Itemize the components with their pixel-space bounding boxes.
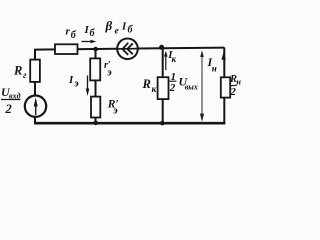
svg-text:н: н	[212, 64, 217, 74]
svg-text:β: β	[105, 18, 113, 33]
label I_k	[167, 49, 176, 64]
svg-text:2: 2	[229, 86, 236, 98]
svg-text:2: 2	[5, 102, 12, 116]
label r'_e	[104, 60, 112, 79]
svg-text:вых: вых	[185, 83, 198, 92]
svg-text:2: 2	[169, 82, 176, 94]
resistor R_n/2 load box	[221, 77, 230, 97]
svg-text:I: I	[121, 21, 127, 33]
svg-text:к: к	[172, 54, 177, 64]
current source chevron 1	[122, 43, 128, 55]
current arrow I_n on load wire	[221, 52, 225, 60]
label I_b with arrow	[84, 24, 96, 39]
svg-text:э: э	[106, 68, 112, 79]
svg-text:r: r	[66, 26, 71, 38]
resistor r_b (base) box	[55, 44, 78, 54]
current arrow I_e	[86, 76, 90, 97]
wire emitter branch vertical	[95, 49, 97, 123]
svg-text:г: г	[23, 71, 27, 81]
node dot collector bottom junction	[160, 121, 165, 126]
wire top rail	[35, 48, 224, 50]
label U_vx/2	[1, 85, 21, 116]
label r_b	[66, 26, 77, 42]
current arrow I_k	[164, 51, 168, 70]
svg-text:э: э	[73, 79, 79, 90]
resistor r'_e box	[90, 58, 100, 80]
current source arrow shaft	[117, 48, 138, 50]
svg-text:э: э	[112, 106, 118, 117]
label I_n	[207, 55, 217, 74]
label I_e	[68, 74, 79, 90]
resistor R_g (generator) box	[30, 60, 40, 82]
wire left branch vertical	[34, 49, 36, 124]
wire collector branch vertical	[162, 47, 164, 123]
svg-text:R: R	[142, 77, 151, 91]
label R'_e	[107, 99, 119, 117]
wire bottom rail	[34, 122, 225, 125]
resistor R'_e box	[91, 97, 100, 118]
voltage arrow U_vyx double headed	[200, 50, 204, 122]
label R_n/2	[229, 74, 241, 98]
source U_vx/2 circle	[25, 96, 46, 117]
svg-text:R: R	[13, 64, 22, 78]
current source chevron 2	[127, 43, 133, 54]
source U_vx/2 arrow inside	[34, 98, 38, 116]
current source beta_e I_b circle	[117, 39, 138, 60]
label R_g	[13, 64, 27, 81]
label beta_e I_b	[105, 18, 134, 37]
node dot emitter bottom junction	[93, 121, 98, 126]
resistor R_k box	[158, 77, 169, 99]
label 1/2 U_vyx	[169, 71, 198, 94]
svg-text:н: н	[236, 77, 241, 87]
svg-text:I: I	[68, 74, 74, 86]
label R_k	[142, 77, 158, 95]
current arrow I_b	[82, 40, 97, 44]
node dot base junction	[93, 47, 98, 52]
node dot collector junction	[159, 45, 164, 50]
wire load branch vertical	[223, 47, 225, 123]
